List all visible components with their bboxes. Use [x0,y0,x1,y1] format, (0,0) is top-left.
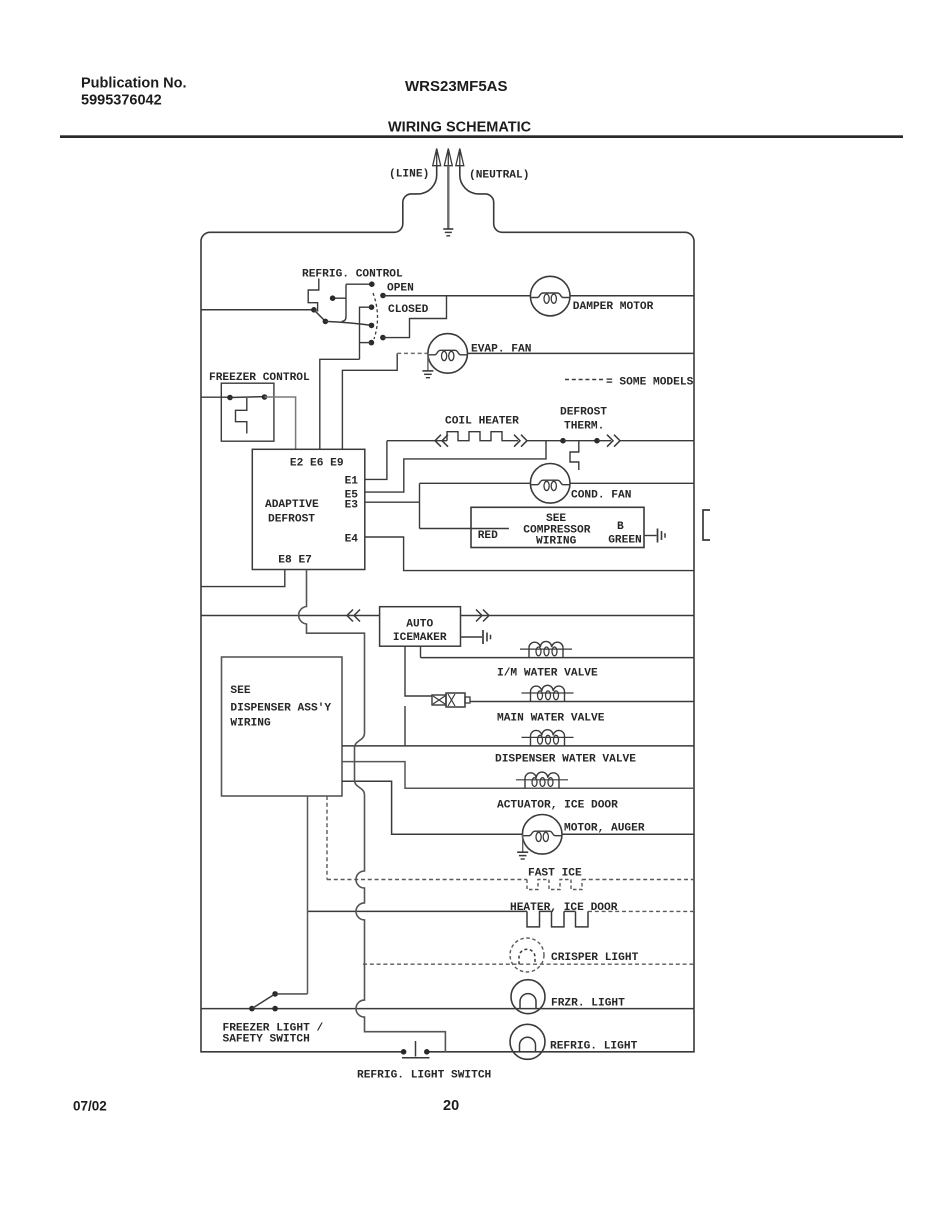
node refrig control contact lower mid [369,323,375,329]
inline connector hatch [433,694,455,706]
auto icemaker box [380,607,461,647]
refrig light switch plunger [402,1041,430,1058]
dispenser assembly box [222,657,343,796]
wire defrost thermostat link [563,440,597,442]
svg-text:E3: E3 [345,499,359,511]
svg-text:(NEUTRAL): (NEUTRAL) [469,170,529,182]
svg-text:(LINE): (LINE) [389,169,429,181]
svg-text:B: B [617,521,624,533]
wire E4 to right rail [365,537,694,571]
node refrig control contact I [369,340,375,346]
coil heater element [447,432,518,441]
refrig light circle [510,1024,545,1059]
svg-text:DAMPER MOTOR: DAMPER MOTOR [573,301,654,313]
motor auger circle [522,815,562,855]
wire fast ice dashed bus left [327,879,527,881]
wire motor auger ground stub [522,834,524,852]
I/M water valve coil [529,647,563,658]
damper motor windings [531,293,569,298]
svg-text:REFRIG. LIGHT SWITCH: REFRIG. LIGHT SWITCH [357,1070,491,1082]
switch blade freezer control [230,396,265,399]
svg-text:REFRIG. CONTROL: REFRIG. CONTROL [302,269,403,281]
node freezer light switch left contact [249,1006,255,1012]
frzr light filament [520,994,536,1009]
wire evap fan ground stub [427,353,429,370]
node freezer light switch bus contact [272,1006,278,1012]
wire refrig control actuator linkage [308,279,319,312]
evap fan circle [428,334,468,374]
svg-text:SEE: SEE [230,685,250,697]
node refrig control contact open-feed [380,293,386,299]
wire outer border line side: plug lead, top edge left, left rail, bottom edge to light switch [201,166,437,1052]
wire evap fan bus to right rail [468,352,695,354]
inline connector body [446,693,465,707]
wire E1 to coil heater line [365,441,387,480]
connector chevrons coil heater left [435,435,448,447]
fast ice heater element dashed [527,880,582,890]
motor auger windings [523,831,561,836]
svg-text:REFRIG. LIGHT: REFRIG. LIGHT [550,1041,638,1053]
svg-text:20: 20 [443,1098,459,1114]
ground symbol motor auger [517,851,528,853]
compressor box [471,507,644,547]
svg-text:CLOSED: CLOSED [388,304,429,316]
svg-text:AUTO: AUTO [406,619,433,631]
wire heater ice door bus left [308,910,528,912]
svg-text:CRISPER LIGHT: CRISPER LIGHT [551,952,639,964]
node refrig control contact H [380,335,386,341]
svg-text:FAST ICE: FAST ICE [528,868,582,880]
switch blade freezer light [252,994,275,1009]
wire coil heater line to defrost thermostat [527,440,563,442]
wire feed from left rail to freezer control [201,396,230,398]
edge connector bracket [703,510,710,540]
node defrost thermostat left [560,438,566,444]
wire crisper light dashed bus [363,963,694,965]
wire feed from left rail to refrig control [201,309,314,311]
svg-text:DEFROST: DEFROST [560,407,607,419]
connector chevrons defrost right [607,435,620,447]
wire icemaker to I/M valve stub [420,646,422,657]
svg-text:E4: E4 [345,534,359,546]
wire fast ice dashed drop from dispenser box [326,796,328,880]
wire evap fan dashed lead (some models) [397,352,428,354]
power plug prong NEUTRAL [456,149,464,167]
svg-text:SAFETY SWITCH: SAFETY SWITCH [223,1034,310,1046]
wire E3 to cond fan riser [365,501,420,503]
wire connector to dispenser valve drop [404,706,406,746]
wire E6 drop to adaptive defrost [320,359,360,449]
wire icemaker to main valve connector drop [405,646,432,696]
wire main water valve bus [470,701,694,703]
wire icemaker bus left [201,615,380,617]
svg-text:FREEZER CONTROL: FREEZER CONTROL [209,372,310,384]
connector chevrons icemaker left [347,610,360,622]
wire contact H zigzag to damper bus [383,296,447,337]
svg-text:DEFROST: DEFROST [268,514,315,526]
wire dispenser box bottom drop to heater and switch [307,796,309,994]
switch blade refrig control common [314,310,326,322]
wire evap fan branch to E9 [342,353,397,449]
wire contact A branch [342,284,372,321]
wire damper motor bus [383,295,694,297]
wire fast ice dashed bus right [582,879,694,881]
actuator ice door coil [525,778,559,789]
terminal icemaker ground connector [482,630,484,644]
inline connector nub [465,697,470,703]
dispenser water valve coil [531,735,565,746]
svg-text:= SOME MODELS: = SOME MODELS [606,377,694,389]
svg-text:07/02: 07/02 [73,1099,107,1114]
wire heater ice door dashed bus right [588,910,694,912]
wire defrost line to right rail [620,440,694,442]
node refrig control contact top [369,281,375,287]
wiper arc refrig control [373,293,378,339]
wire cond fan riser [419,483,421,528]
wire icemaker bus right [461,615,695,617]
crisper light filament dashed [519,949,535,964]
damper motor circle [530,276,570,316]
svg-text:WIRING: WIRING [230,717,271,729]
wire RED lead [420,528,509,530]
wire E5 riser to defrost line [365,441,546,492]
svg-text:DISPENSER WATER VALVE: DISPENSER WATER VALVE [495,754,636,766]
freezer control box [221,383,274,441]
svg-text:WIRING: WIRING [536,535,577,547]
wire dispenser box to actuator bus [342,762,694,789]
svg-text:WRS23MF5AS: WRS23MF5AS [405,78,508,95]
svg-text:FRZR. LIGHT: FRZR. LIGHT [551,998,625,1010]
wire coil heater line left [387,440,447,442]
wire E8 to left rail [201,570,285,587]
svg-text:I/M WATER VALVE: I/M WATER VALVE [497,668,598,680]
evap fan windings [429,350,467,355]
node refrig control blade pivot [323,319,329,325]
wire dispenser water valve bus [342,745,694,747]
ground symbol evap fan [422,370,433,372]
wire contact C stub [333,297,346,299]
wire ground prong lead [447,166,449,229]
svg-text:DISPENSER ASS'Y: DISPENSER ASS'Y [230,702,331,714]
ground symbol plug [443,228,453,230]
svg-text:SEE: SEE [546,513,566,525]
wire outer border neutral side: plug lead, top edge right, right rail, bottom edge to light switch [428,166,694,1052]
svg-text:ADAPTIVE: ADAPTIVE [265,499,319,511]
svg-text:MOTOR, AUGER: MOTOR, AUGER [564,823,645,835]
wire freezer light switch to dispenser drop [275,993,307,995]
wire E7 feeder with crossover hops [299,570,446,1052]
wire dispenser box to motor auger bus [342,781,694,834]
node defrost thermostat right [594,438,600,444]
inline connector left half [432,695,446,705]
heater ice door element [527,911,588,927]
node refrig light switch left contact [401,1049,407,1055]
wire contact E to E6 drop [360,307,372,359]
node freezer control right contact [262,394,268,400]
adaptive defrost board box [252,449,364,569]
cond fan windings [531,480,569,485]
wire I/M water valve bus [421,657,695,659]
svg-text:THERM.: THERM. [564,421,604,433]
wire freezer control to E2 [265,397,296,449]
node refrig control contact C [330,295,336,301]
wire frzr light bus [201,1008,694,1010]
refrig light filament [520,1037,536,1052]
frzr light circle [511,980,545,1014]
power plug prong ground middle [444,149,452,167]
svg-text:MAIN WATER VALVE: MAIN WATER VALVE [497,713,605,725]
svg-text:RED: RED [478,530,498,542]
svg-text:EVAP. FAN: EVAP. FAN [471,344,531,356]
wire icemaker terminal lead [461,636,483,638]
svg-text:WIRING SCHEMATIC: WIRING SCHEMATIC [388,120,532,136]
svg-text:ACTUATOR, ICE DOOR: ACTUATOR, ICE DOOR [497,800,618,812]
svg-text:OPEN: OPEN [387,283,414,295]
connector chevrons icemaker right [476,610,489,622]
crisper light circle dashed [510,938,544,972]
main water valve coil [531,691,565,702]
svg-text:5995376042: 5995376042 [81,92,162,108]
header rule [60,135,903,138]
node refrig light switch right contact [424,1049,430,1055]
legend dashed sample [565,379,604,381]
svg-text:GREEN: GREEN [608,534,642,546]
node refrig control contact E [369,304,375,310]
connector chevrons coil heater right [514,435,527,447]
wire defrost line right [597,440,611,442]
power plug prong LINE [433,149,441,167]
svg-text:ICEMAKER: ICEMAKER [393,632,447,644]
switch blade refrig control wiper to closed contact [325,321,371,325]
svg-text:COND. FAN: COND. FAN [571,490,631,502]
freezer control actuator zigzag [236,398,247,434]
cond fan circle [530,464,570,504]
terminal GREEN ground connector [657,529,659,543]
node freezer light switch upper contact [272,991,278,997]
svg-text:E2 E6 E9: E2 E6 E9 [290,458,344,470]
defrost thermostat sensor zigzag [570,441,579,470]
wire contact I to E6 drop [360,342,372,344]
svg-text:E8 E7: E8 E7 [278,555,312,567]
wire cond fan bus [420,482,695,484]
svg-text:Publication No.: Publication No. [81,76,187,92]
node freezer control left contact [227,395,233,401]
svg-text:COIL HEATER: COIL HEATER [445,416,519,428]
svg-text:E1: E1 [345,475,359,487]
wire GREEN lead [644,535,657,537]
node refrig control common contact [311,307,317,313]
